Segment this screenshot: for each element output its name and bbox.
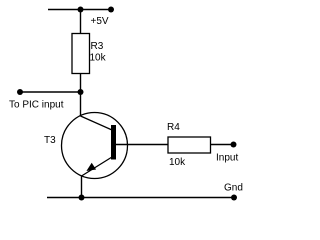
wire top +5V rail bbox=[48, 9, 113, 11]
svg-text:To PIC input: To PIC input bbox=[9, 100, 64, 111]
node junction collector / PIC tap bbox=[78, 89, 84, 95]
wire from +5V rail down to R3 top bbox=[80, 10, 82, 34]
svg-text:10k: 10k bbox=[90, 53, 107, 64]
wire R4 to Input terminal bbox=[211, 144, 234, 146]
svg-text:+5V: +5V bbox=[91, 16, 109, 27]
svg-text:Input: Input bbox=[216, 153, 238, 164]
transistor T3 collector stroke bbox=[81, 116, 113, 130]
svg-text:10k: 10k bbox=[169, 157, 186, 168]
node Input terminal dot bbox=[231, 142, 237, 148]
node To-PIC-input terminal dot bbox=[17, 89, 23, 95]
node Gnd terminal dot bbox=[231, 195, 237, 201]
wire emitter down to ground rail bbox=[81, 176, 83, 198]
resistor R3 body bbox=[72, 34, 90, 74]
wire ground rail bbox=[47, 197, 234, 199]
node junction top (collector rail tap) bbox=[78, 7, 84, 13]
svg-text:T3: T3 bbox=[44, 135, 56, 146]
wire to PIC input bbox=[20, 91, 81, 93]
node junction emitter-ground bbox=[79, 195, 85, 201]
transistor T3 base bar bbox=[111, 125, 116, 160]
transistor T3 emitter arrow bbox=[86, 163, 96, 171]
wire from R3 bottom to collector node bbox=[80, 74, 82, 117]
transistor T3 body circle bbox=[62, 113, 128, 179]
svg-text:Gnd: Gnd bbox=[224, 183, 243, 194]
transistor T3 emitter stroke bbox=[82, 157, 113, 176]
node +5V terminal dot bbox=[108, 7, 114, 13]
svg-text:R3: R3 bbox=[91, 41, 104, 52]
svg-text:R4: R4 bbox=[167, 122, 180, 133]
wire base to R4 bbox=[116, 144, 168, 146]
resistor R4 body bbox=[168, 137, 211, 153]
